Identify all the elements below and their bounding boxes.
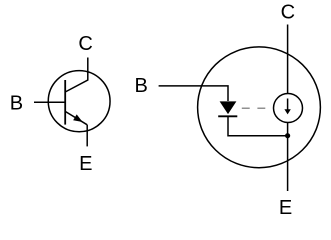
- emitter lead with arrow Q1: [65, 111, 87, 124]
- wire base lead Q1: [34, 101, 65, 103]
- wire diode cathode to bottom node: [228, 116, 288, 135]
- photodiode D1 triangle: [220, 101, 237, 114]
- dashed optical-coupling link: [242, 107, 273, 109]
- svg-text:B: B: [135, 75, 148, 97]
- wire base lead: [159, 86, 228, 101]
- wire collector lead (top): [287, 25, 289, 94]
- current source CS1 circle: [274, 94, 303, 123]
- current source CS1 arrowhead: [284, 109, 290, 114]
- equivalent-circuit enclosure circle: [198, 47, 321, 168]
- wire emitter lead (bottom): [287, 123, 289, 192]
- svg-text:C: C: [281, 1, 295, 23]
- svg-text:E: E: [279, 197, 292, 219]
- junction node dot: [285, 133, 290, 138]
- emitter arrowhead Q1: [73, 114, 82, 122]
- svg-text:E: E: [79, 153, 92, 175]
- svg-text:B: B: [10, 92, 23, 114]
- current source CS1 arrow shaft: [287, 99, 289, 111]
- svg-text:C: C: [78, 33, 92, 55]
- base bar Q1: [64, 80, 66, 125]
- transistor Q1 body circle: [48, 71, 110, 132]
- wire collector lead Q1: [65, 58, 88, 93]
- wire emitter lead Q1: [86, 125, 88, 147]
- photodiode D1 cathode bar: [218, 115, 237, 117]
